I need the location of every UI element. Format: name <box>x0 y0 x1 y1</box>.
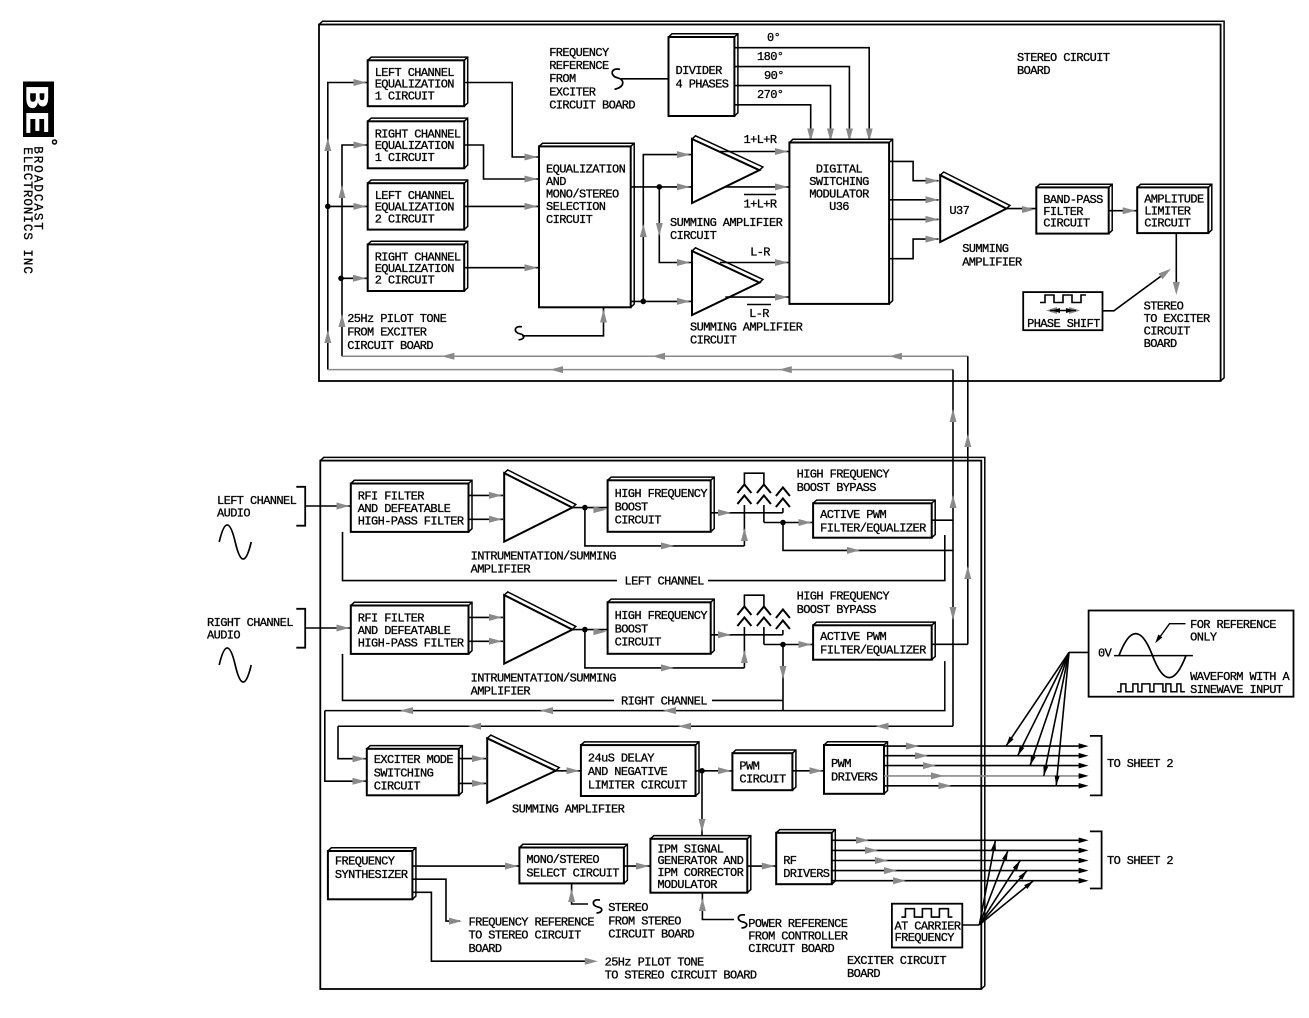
arrowhead phase shift diagonal <box>1158 269 1171 279</box>
svg-text:25Hz PILOT TONE: 25Hz PILOT TONE <box>605 956 704 970</box>
block: 24uS delay and negative limiter circuit <box>581 742 699 796</box>
black arrowhead pwm output 2 to sheet 2 <box>1079 753 1089 759</box>
chevron stems (right) <box>743 627 745 668</box>
exciter circuit board outline <box>320 457 985 989</box>
fan line to pwm output 1 <box>1006 652 1069 746</box>
arrowhead amp in1 (right) <box>489 614 502 621</box>
wire: left audio into rfi filter 1 <box>305 505 351 507</box>
arrowhead into pwm circuit <box>718 767 731 774</box>
arrowhead carrier fan line 1 <box>991 840 996 850</box>
block: rfi filter and defeatable high-pass filter (right) <box>351 602 472 654</box>
svg-text:CIRCUIT: CIRCUIT <box>690 334 737 348</box>
wire: chevron2 to active pwm (left) <box>764 522 813 524</box>
pwm waveform in reference box <box>1117 684 1185 692</box>
svg-text:CIRCUIT: CIRCUIT <box>374 780 421 794</box>
wire: hf boost out to chevron3 (right) <box>711 634 783 636</box>
block: left channel equalization 2 circuit <box>368 180 468 230</box>
up arrowhead on right riser lower <box>339 314 346 327</box>
wire: outA down to amp2 in1 <box>659 187 691 263</box>
svg-text:CIRCUIT: CIRCUIT <box>1144 216 1191 230</box>
arrowhead into selection in4 <box>525 264 538 271</box>
svg-text:CIRCUIT BOARD: CIRCUIT BOARD <box>608 928 694 942</box>
svg-text:FILTER/EQUALIZER: FILTER/EQUALIZER <box>820 643 926 657</box>
arrowhead U37 in1 <box>926 177 939 184</box>
arrowhead amp in2 (left) <box>489 516 502 523</box>
svg-text:STEREO CIRCUIT: STEREO CIRCUIT <box>1017 51 1110 65</box>
arrowhead into selection in1 <box>525 154 538 161</box>
wire: U36 out1 to U37 <box>889 161 938 180</box>
arrowhead U37 in4 <box>926 236 939 243</box>
svg-text:DRIVERS: DRIVERS <box>831 770 878 784</box>
wire: delay junction down to ipm <box>701 771 703 839</box>
svg-text:2 CIRCUIT: 2 CIRCUIT <box>375 212 435 226</box>
wire: stereo output down from limiter <box>1175 233 1177 282</box>
block: equalization and mono/stereo selection circuit <box>539 143 634 307</box>
svg-text:FILTER/EQUALIZER: FILTER/EQUALIZER <box>820 521 926 535</box>
block: high frequency boost circuit (left) <box>608 477 715 532</box>
arrowhead into right eq1 <box>354 142 367 149</box>
svg-text:B: B <box>17 85 54 109</box>
arrowhead fan line 2 <box>1018 746 1025 756</box>
black arrowhead pwm output 3 to sheet 2 <box>1079 763 1089 769</box>
svg-text:BOOST BYPASS: BOOST BYPASS <box>797 481 877 495</box>
wire: pwm driver output 3 <box>884 765 1079 767</box>
svg-text:ONLY: ONLY <box>1190 631 1217 645</box>
arrowhead into mono/stereo select <box>505 863 518 870</box>
arrowhead amp2 in1 <box>677 259 690 266</box>
svg-text:270°: 270° <box>757 88 783 102</box>
wire: RIGHT CHANNEL line <box>343 654 615 701</box>
svg-text:SINEWAVE INPUT: SINEWAVE INPUT <box>1190 683 1283 697</box>
wire: hf boost bypass (right) <box>585 630 745 668</box>
wire: 0 deg phase line <box>734 48 869 143</box>
svg-text:BOARD: BOARD <box>847 967 880 981</box>
wire: band-pass to amplitude limiter <box>1109 210 1138 212</box>
arrowhead summing in1 <box>472 755 485 762</box>
arrowhead L-R into U36 <box>775 259 788 266</box>
arrowhead into hf boost (left) <box>593 506 606 513</box>
down arrowhead riser 953 lower <box>950 607 957 620</box>
black arrowhead pwm output 1 to sheet 2 <box>1079 743 1089 749</box>
wire: hf boost bypass (left) <box>585 508 745 546</box>
svg-text:EXCITER MODE: EXCITER MODE <box>374 753 454 767</box>
down arrowhead below right chevron junction <box>780 666 787 679</box>
black arrowhead pwm output 5 to sheet 2 <box>1079 783 1089 789</box>
gray arrowhead pwm output 1 <box>906 743 919 750</box>
up arrowhead riser 967 gap <box>964 434 971 447</box>
wire: U36 out2 to U37 <box>889 199 938 201</box>
svg-text:SUMMING AMPLIFIER: SUMMING AMPLIFIER <box>690 320 803 334</box>
wire: stub into reference box <box>1069 651 1089 653</box>
svg-text:TO SHEET 2: TO SHEET 2 <box>1107 757 1173 771</box>
wire: bus lower to exciter mode in1 <box>338 726 367 758</box>
black arrowhead rf output 1 to sheet 2 <box>1079 838 1089 844</box>
arrowhead into ipm <box>636 863 649 870</box>
block: rfi filter and defeatable high-pass filter (left) <box>351 480 472 532</box>
svg-text:CIRCUIT: CIRCUIT <box>546 213 593 227</box>
wire: rfi to amp in2 (right) <box>469 640 504 642</box>
svg-text:1 CIRCUIT: 1 CIRCUIT <box>375 89 435 103</box>
fan line to rf output 5 <box>979 881 1033 925</box>
arrowhead 90 into U36 <box>827 129 834 142</box>
svg-text:CIRCUIT BOARD: CIRCUIT BOARD <box>549 98 635 112</box>
svg-text:INTRUMENTATION/SUMMING: INTRUMENTATION/SUMMING <box>471 549 617 563</box>
fan line to rf output 4 <box>979 871 1027 925</box>
arrowhead fan line 3 <box>1030 755 1036 765</box>
chevron symbol 3 (right) <box>776 610 790 630</box>
svg-text:HIGH FREQUENCY: HIGH FREQUENCY <box>797 468 890 482</box>
block: band-pass filter circuit <box>1036 184 1112 233</box>
block: pwm circuit <box>732 750 796 790</box>
svg-text:STEREO: STEREO <box>608 901 648 915</box>
wire: branch to right eq2 <box>341 277 368 279</box>
svg-text:0V: 0V <box>1098 647 1113 661</box>
sine waveform in reference box <box>1114 655 1193 657</box>
down arrowhead stereo to exciter <box>1173 282 1180 295</box>
arrowhead amp2 in2 <box>677 298 690 305</box>
svg-text:HIGH FREQUENCY: HIGH FREQUENCY <box>797 590 890 604</box>
svg-text:SUMMING AMPLIFIER: SUMMING AMPLIFIER <box>670 216 783 230</box>
up arrowhead on left riser <box>324 138 331 151</box>
arrowhead on bypass (right) <box>661 664 674 671</box>
chevron symbol 1 (right) <box>737 607 751 627</box>
svg-text:SWITCHING: SWITCHING <box>374 766 434 780</box>
square wave symbol in phase shift <box>1040 295 1086 303</box>
arrowhead fan line 5 <box>1055 776 1060 786</box>
svg-text:AUDIO: AUDIO <box>217 507 250 521</box>
arrowhead U37 in3 <box>926 216 939 223</box>
wire: left feedback riser to left eq1 <box>328 83 368 370</box>
black arrowhead pwm output 4 to sheet 2 <box>1079 773 1089 779</box>
svg-text:FROM EXCITER: FROM EXCITER <box>347 326 427 340</box>
svg-text:SELECT CIRCUIT: SELECT CIRCUIT <box>526 866 619 880</box>
wire: rf driver output 1 <box>832 839 1079 841</box>
wire: rf driver output 3 <box>832 860 1079 862</box>
up arrowhead riser 967 in exciter <box>964 566 971 579</box>
block: exciter mode switching circuit <box>367 746 463 796</box>
wire: ipm to rf drivers <box>747 865 776 867</box>
svg-text:BOOST BYPASS: BOOST BYPASS <box>797 603 877 617</box>
wire: rf driver output 5 <box>832 880 1079 882</box>
stereo circuit board outline <box>319 21 1224 381</box>
instrumentation/summing amplifier triangle (left) <box>504 470 576 542</box>
arrowhead carrier fan line 2 <box>1002 850 1008 860</box>
exciter bus upper y=710.6 <box>325 661 945 711</box>
svg-text:BOARD: BOARD <box>1144 337 1177 351</box>
block: mono/stereo select circuit <box>519 844 627 883</box>
wire: right audio into rfi filter 2 <box>305 627 351 629</box>
Broadcast Electronics logo <box>17 82 57 145</box>
riser: left channel to stereo board x=953 <box>952 370 954 727</box>
wire: U37 to band-pass filter <box>1006 208 1036 210</box>
svg-text:RF: RF <box>783 854 797 868</box>
riser: right channel to stereo board x=967.8 <box>967 356 969 644</box>
svg-text:INTRUMENTATION/SUMMING: INTRUMENTATION/SUMMING <box>471 671 617 685</box>
svg-text:U36: U36 <box>829 200 849 214</box>
wire: U36 out4 to U37 <box>889 239 938 259</box>
instrumentation/summing amplifier triangle (right) <box>504 592 576 664</box>
svg-text:4 PHASES: 4 PHASES <box>676 78 729 92</box>
wire: right eq1 out to selection <box>464 145 539 179</box>
wire: selection outB to amp2 in2 <box>631 300 691 302</box>
arrowhead into rfi filter 1 <box>337 503 350 510</box>
svg-text:1 CIRCUIT: 1 CIRCUIT <box>375 151 435 165</box>
wire: amp2 out L-R <box>720 262 789 264</box>
gray arrowhead rf output 5 <box>893 877 906 884</box>
down arrowhead on crosswire <box>656 223 663 236</box>
left arrowhead on exciter bus lower <box>678 723 691 730</box>
wire: amp out to hf boost (left) <box>572 507 607 509</box>
svg-text:AND NEGATIVE: AND NEGATIVE <box>588 765 668 779</box>
wire: frequency reference to stereo board <box>412 879 460 921</box>
arrowhead into left eq2 <box>354 203 367 210</box>
svg-text:BOOST: BOOST <box>615 622 648 636</box>
svg-text:AMPLIFIER: AMPLIFIER <box>471 685 531 699</box>
arrowhead into active pwm (left) <box>799 519 812 526</box>
wire: active pwm right output to riser <box>932 643 968 645</box>
left arrowhead on bus B <box>550 366 563 373</box>
wire: outB up to amp1 in1 <box>643 155 691 302</box>
svg-text:SUMMING AMPLIFIER: SUMMING AMPLIFIER <box>512 803 625 817</box>
block: phase shift <box>1023 292 1102 330</box>
block: ipm signal generator and ipm corrector modulator <box>650 836 750 893</box>
block: rf drivers <box>776 830 835 885</box>
arrowhead frequency reference <box>449 918 462 925</box>
block: digital switching modulator U36 <box>789 139 892 304</box>
arrowhead into amplitude limiter <box>1123 207 1136 214</box>
svg-text:CIRCUIT: CIRCUIT <box>670 229 717 243</box>
wire: left pwm junction down to riser <box>783 523 953 551</box>
gray arrowhead pwm output 4 <box>931 772 944 779</box>
reference waveform box <box>1089 611 1294 697</box>
svg-text:CIRCUIT: CIRCUIT <box>1043 217 1090 231</box>
svg-text:CIRCUIT: CIRCUIT <box>739 773 786 787</box>
wire: delay to pwm circuit <box>696 770 733 772</box>
arrowhead inv 1+L+R into U36 <box>775 183 788 190</box>
block: amplitude limiter circuit <box>1137 184 1212 233</box>
gray arrowhead rf output 4 <box>884 867 897 874</box>
svg-text:BOARD: BOARD <box>1017 64 1050 78</box>
svg-text:ACTIVE PWM: ACTIVE PWM <box>820 508 886 522</box>
svg-text:AMPLIFIER: AMPLIFIER <box>471 563 531 577</box>
svg-text:TO SHEET 2: TO SHEET 2 <box>1107 854 1173 868</box>
square wave symbol at carrier frequency <box>901 909 952 917</box>
block: pwm drivers <box>824 742 888 794</box>
left arrowhead on bus A <box>652 353 665 360</box>
input bracket right channel <box>296 609 305 648</box>
arrowhead 180 into U36 <box>846 129 853 142</box>
left arrowhead on bus A <box>889 353 902 360</box>
svg-text:LIMITER CIRCUIT: LIMITER CIRCUIT <box>588 778 687 792</box>
arrowhead hf boost out (left) <box>718 509 731 516</box>
wire: left eq1 out to selection <box>464 83 539 158</box>
up arrowhead riser 953 in exciter <box>950 495 957 508</box>
summing amplifier triangle 1 <box>692 136 763 203</box>
svg-text:MODULATOR: MODULATOR <box>657 878 717 892</box>
summing amplifier U37 <box>940 172 1010 242</box>
junction outB <box>641 299 647 305</box>
svg-text:MONO/STEREO: MONO/STEREO <box>526 853 599 867</box>
svg-text:CIRCUIT BOARD: CIRCUIT BOARD <box>748 942 834 956</box>
left arrowhead on bus B <box>779 366 792 373</box>
junction below chevron2 (right) <box>780 642 786 648</box>
arrowhead U37 in2 <box>926 196 939 203</box>
svg-text:AMPLIFIER: AMPLIFIER <box>962 256 1022 270</box>
block: left channel equalization 1 circuit <box>368 57 468 106</box>
wire: bus upper to exciter mode in2 <box>325 711 367 782</box>
svg-text:TO STEREO CIRCUIT BOARD: TO STEREO CIRCUIT BOARD <box>605 969 757 983</box>
wire: pwm driver output 1 <box>884 745 1079 747</box>
svg-text:PHASE SHIFT: PHASE SHIFT <box>1027 317 1100 331</box>
svg-text:HIGH FREQUENCY: HIGH FREQUENCY <box>615 609 708 623</box>
fan line to rf output 2 <box>979 850 1008 924</box>
svg-text:1+L+R: 1+L+R <box>743 133 776 147</box>
svg-text:2 CIRCUIT: 2 CIRCUIT <box>375 274 435 288</box>
wire: stereo from stereo circuit board <box>572 883 588 904</box>
input bracket left channel <box>296 487 305 526</box>
block: right channel equalization 2 circuit <box>368 241 468 291</box>
junction amp output (left) <box>582 505 588 511</box>
wire: exciter mode out1 to summing amp <box>459 758 486 760</box>
wire: amp out to hf boost (right) <box>572 629 607 631</box>
up arrowhead into chevron1 (right) <box>741 650 748 663</box>
svg-text:25Hz PILOT TONE: 25Hz PILOT TONE <box>347 312 446 326</box>
wire: right feedback riser to right eq1 <box>342 145 368 356</box>
wire: squiggle to divider <box>621 78 669 80</box>
svg-text:FROM STEREO: FROM STEREO <box>608 914 681 928</box>
arrowhead carrier fan line 4 <box>1019 871 1027 880</box>
svg-text:SYNTHESIZER: SYNTHESIZER <box>335 868 408 882</box>
summing amplifier triangle 2 <box>692 248 763 315</box>
junction outA <box>657 184 663 190</box>
fan line to pwm output 5 <box>1056 652 1069 785</box>
wire: pilot tone into selection box <box>522 307 604 336</box>
summing amplifier triangle (exciter) <box>487 735 559 803</box>
up arrowhead into mono/stereo select <box>568 889 575 902</box>
fan line to rf output 1 <box>979 840 995 924</box>
hf boost bypass chevron group (left) <box>744 473 764 484</box>
arrowhead summing in2 <box>472 780 485 787</box>
wire: hf boost out to chevron3 (left) <box>711 512 783 514</box>
gray arrowhead pwm output 5 <box>939 782 952 789</box>
svg-text:FREQUENCY: FREQUENCY <box>895 931 955 945</box>
wire: LEFT CHANNEL line <box>343 532 618 581</box>
wire: rf driver output 4 <box>832 870 1079 872</box>
gray arrowhead pwm output 3 <box>923 762 936 769</box>
wire: chevron2 to active pwm (right) <box>764 644 813 646</box>
wire: rfi to amp in1 (left) <box>469 494 504 496</box>
wire: 270 deg phase line <box>734 105 810 143</box>
arrowhead inv L-R into U36 <box>775 294 788 301</box>
arrowhead amp1 in2 <box>677 183 690 190</box>
up arrowhead on crosswire <box>640 224 647 237</box>
svg-text:HIGH-PASS FILTER: HIGH-PASS FILTER <box>358 515 464 529</box>
hf boost bypass chevron group (right) <box>744 595 764 606</box>
connector squiggle: frequency reference <box>612 69 623 89</box>
arrowhead into rfi filter 2 <box>337 625 350 632</box>
svg-text:CIRCUIT: CIRCUIT <box>615 514 662 528</box>
svg-text:FREQUENCY REFERENCE: FREQUENCY REFERENCE <box>469 915 595 929</box>
svg-text:RIGHT CHANNEL: RIGHT CHANNEL <box>621 694 707 708</box>
bracket TO SHEET 2 (rf) <box>1090 831 1102 888</box>
left arrowhead on exciter bus upper <box>663 707 676 714</box>
wire: 25Hz pilot tone to stereo board <box>412 892 585 961</box>
chevron symbol 2 (left) <box>757 485 771 505</box>
sine symbol right audio <box>219 648 251 682</box>
svg-text:EXCITER CIRCUIT: EXCITER CIRCUIT <box>847 954 946 968</box>
svg-text:L-R: L-R <box>750 246 770 260</box>
arrow FOR REFERENCE ONLY <box>1157 624 1186 641</box>
wire: summing amp to 24uS delay <box>556 770 581 772</box>
svg-text:PWM: PWM <box>831 757 851 771</box>
wire: amp1 out 1+L+R <box>720 151 789 153</box>
wire: branch to left eq2 <box>328 205 368 207</box>
connector squiggle: 25Hz pilot tone <box>515 327 523 340</box>
left arrowhead on exciter bus upper <box>400 707 413 714</box>
chevron stems (left) <box>743 505 745 546</box>
gray arrowhead rf output 3 <box>875 857 888 864</box>
black arrowhead rf output 2 to sheet 2 <box>1079 848 1089 854</box>
connector squiggle: power reference <box>738 915 746 928</box>
black arrowhead rf output 5 to sheet 2 <box>1079 878 1089 884</box>
wire: amp2 out inverted L-R <box>725 296 789 298</box>
svg-text:ACTIVE PWM: ACTIVE PWM <box>820 630 886 644</box>
up arrowhead into ipm bottom <box>699 898 706 911</box>
wire: 90 deg phase line <box>734 86 830 143</box>
sine symbol left audio <box>219 525 251 559</box>
wire: mono/stereo to ipm <box>624 865 651 867</box>
wire: power reference from controller <box>702 893 734 920</box>
wire: 180 deg phase line <box>734 67 849 143</box>
up arrowhead on right riser <box>339 185 346 198</box>
left arrowhead on bus A <box>441 353 454 360</box>
wire: phase shift diagonal <box>1103 271 1169 311</box>
arrowhead into active pwm (right) <box>799 641 812 648</box>
arrowhead 270 into U36 <box>807 129 814 142</box>
svg-text:PWM: PWM <box>739 759 759 773</box>
arrowhead 25Hz pilot tone <box>585 958 598 965</box>
arrowhead amp in1 (left) <box>489 492 502 499</box>
wire: amp1 out inverted <box>725 186 789 188</box>
svg-text:AUDIO: AUDIO <box>207 629 240 643</box>
exciter bus lower y=726.3 <box>338 725 953 727</box>
junction left riser to left eq2 <box>325 204 331 210</box>
right arrowhead on 550 wire <box>847 547 860 554</box>
wire: rfi to amp in2 (left) <box>469 518 504 520</box>
junction below chevron2 (left) <box>780 520 786 526</box>
wire: rfi to amp in1 (right) <box>469 616 504 618</box>
block: high frequency boost circuit (right) <box>608 599 715 654</box>
svg-text:TO STEREO CIRCUIT: TO STEREO CIRCUIT <box>469 929 582 943</box>
svg-text:180°: 180° <box>757 50 783 64</box>
left arrowhead on exciter bus upper <box>540 707 553 714</box>
wire: U36 out3 to U37 <box>889 218 938 220</box>
arrowhead carrier fan line 3 <box>1013 861 1020 871</box>
arrowhead fan line 1 <box>1006 736 1014 746</box>
svg-text:SUMMING: SUMMING <box>962 242 1009 256</box>
svg-text:0°: 0° <box>767 31 780 45</box>
svg-text:DIVIDER: DIVIDER <box>676 64 723 78</box>
arrowhead exciter mode in1 <box>353 755 366 762</box>
svg-text:U37: U37 <box>949 204 969 218</box>
arrowhead into selection in3 <box>525 203 538 210</box>
block: frequency synthesizer <box>328 848 416 900</box>
up arrowhead riser 953 gap <box>950 409 957 422</box>
fan line to pwm output 2 <box>1018 652 1069 755</box>
wire: synth to mono/stereo select <box>412 865 519 867</box>
arrowhead on bypass (left) <box>661 542 674 549</box>
arrowhead fan line 4 <box>1043 766 1048 776</box>
